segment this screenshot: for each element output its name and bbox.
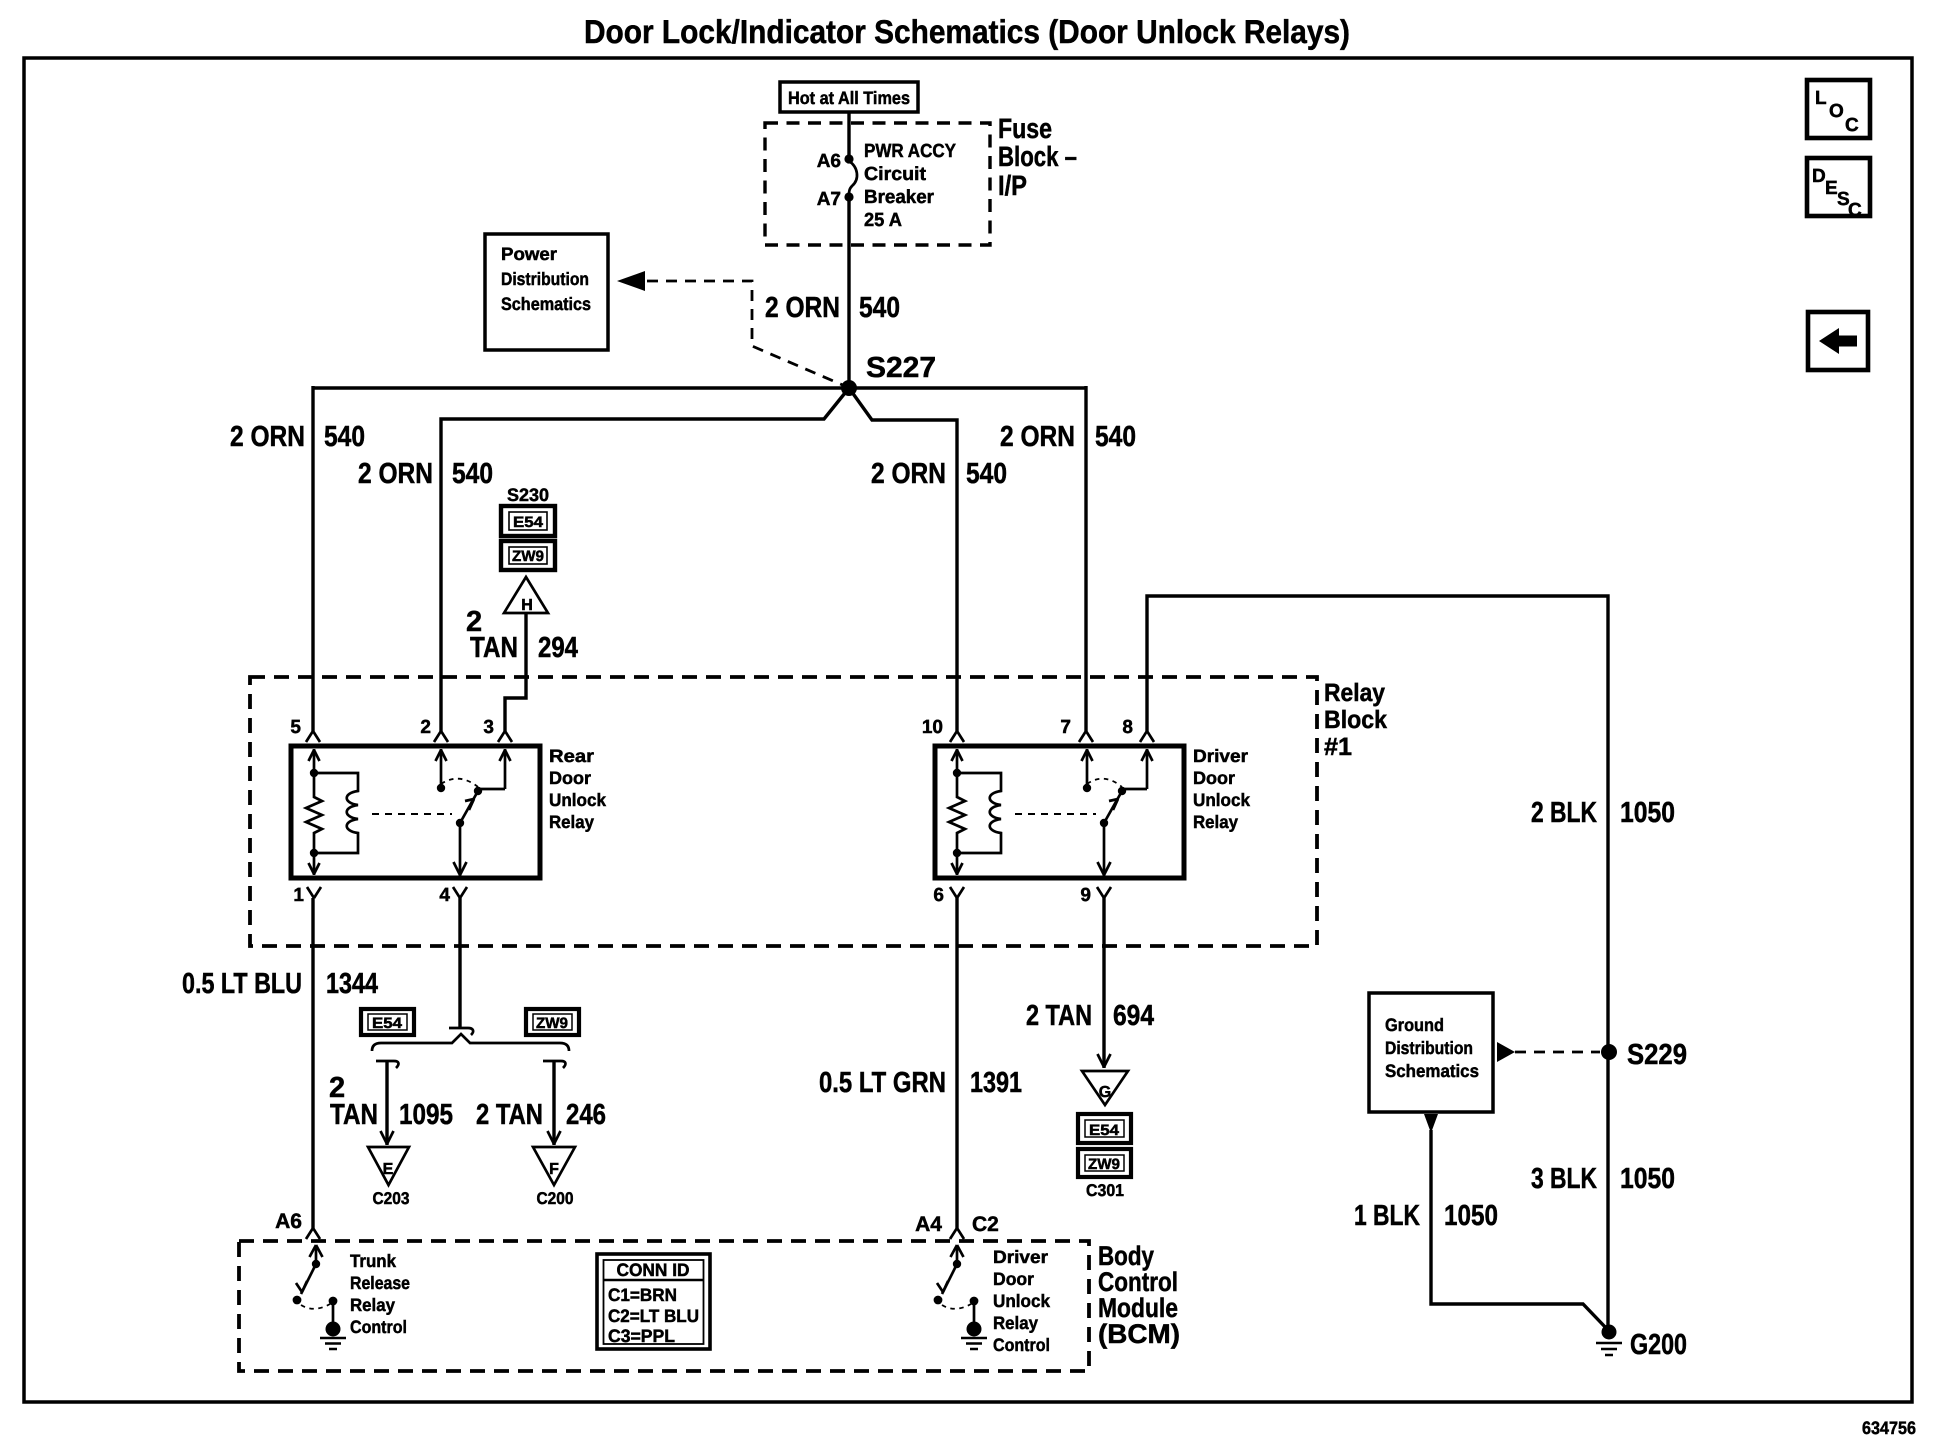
- svg-text:2 ORN: 2 ORN: [230, 421, 305, 453]
- ground G200: [1596, 1325, 1687, 1362]
- label 2 ORN 540 (pin 7): [1000, 421, 1136, 453]
- label 2 ORN 540 (pin 5): [230, 421, 365, 453]
- svg-text:Block: Block: [1324, 706, 1387, 734]
- body control module dashed box: [239, 1241, 1089, 1371]
- svg-text:2 ORN: 2 ORN: [1000, 421, 1075, 453]
- wire 2 BLK 1050 pin8 to S229: [1140, 596, 1608, 1052]
- svg-text:Hot at All Times: Hot at All Times: [788, 88, 910, 108]
- svg-text:2 TAN: 2 TAN: [476, 1099, 543, 1131]
- svg-text:ZW9: ZW9: [512, 548, 544, 565]
- trunk release relay control switch: [293, 1245, 346, 1349]
- svg-text:3 BLK: 3 BLK: [1531, 1163, 1597, 1195]
- svg-text:1050: 1050: [1444, 1200, 1498, 1232]
- svg-text:1095: 1095: [399, 1099, 453, 1131]
- svg-text:540: 540: [324, 421, 365, 453]
- svg-text:C2: C2: [972, 1213, 999, 1236]
- driver door unlock relay coil output pin: [950, 853, 964, 898]
- svg-text:E54: E54: [372, 1015, 403, 1032]
- svg-text:Relay: Relay: [350, 1295, 395, 1315]
- svg-text:C2=LT BLU: C2=LT BLU: [608, 1306, 699, 1326]
- svg-text:6: 6: [933, 885, 944, 906]
- label 0.5 LT GRN 1391: [819, 1067, 1022, 1099]
- relay block #1 dashed box: [250, 677, 1317, 946]
- svg-text:Circuit: Circuit: [864, 164, 927, 185]
- wire 2 ORN 540 fuse block to S227: [847, 197, 850, 388]
- svg-text:F: F: [549, 1161, 559, 1178]
- svg-text:Relay: Relay: [549, 812, 594, 832]
- harness box E54 (left): [361, 1009, 414, 1035]
- svg-text:9: 9: [1080, 885, 1091, 906]
- harness box E54 (right): [1078, 1114, 1131, 1143]
- svg-text:E: E: [383, 1161, 394, 1178]
- svg-text:D: D: [1812, 166, 1826, 187]
- svg-text:G: G: [1099, 1084, 1111, 1101]
- svg-text:CONN ID: CONN ID: [617, 1260, 690, 1280]
- wire 2 TAN 294 to relay pin 3: [498, 613, 526, 742]
- rear door unlock relay coil output pin: [307, 853, 321, 898]
- relay pin numbers top: [290, 717, 1133, 738]
- svg-text:Relay: Relay: [1324, 679, 1385, 707]
- svg-text:1: 1: [293, 885, 304, 906]
- svg-text:540: 540: [966, 458, 1007, 490]
- dashed arrow to power distribution schematics: [617, 271, 845, 386]
- svg-text:246: 246: [566, 1099, 606, 1131]
- label Fuse Block - I/P: [998, 113, 1077, 201]
- dashed arrow ground distribution to S229: [1497, 1042, 1600, 1062]
- svg-text:TAN: TAN: [330, 1099, 378, 1131]
- rear door unlock relay switch: [372, 749, 511, 876]
- svg-text:Breaker: Breaker: [864, 187, 935, 208]
- svg-text:S227: S227: [866, 352, 936, 384]
- wire 2 ORN 540 to relay pin 10: [849, 388, 964, 742]
- svg-text:7: 7: [1060, 717, 1071, 738]
- svg-text:540: 540: [1095, 421, 1136, 453]
- svg-text:Fuse: Fuse: [998, 113, 1052, 144]
- svg-text:#1: #1: [1324, 733, 1352, 761]
- svg-text:540: 540: [452, 458, 493, 490]
- svg-text:Driver: Driver: [1193, 746, 1248, 766]
- label 3 BLK 1050: [1531, 1163, 1675, 1195]
- wire 0.5 LT BLU 1344 pin1 to BCM A6: [306, 898, 320, 1239]
- driver door unlock relay switch output connector: [1097, 887, 1111, 898]
- terminal A7: [817, 189, 854, 210]
- svg-text:1391: 1391: [970, 1067, 1022, 1099]
- wire into fuse block: [847, 112, 850, 160]
- svg-text:10: 10: [922, 717, 943, 738]
- label Driver Door Unlock Relay Control: [993, 1247, 1051, 1355]
- svg-text:G200: G200: [1630, 1329, 1687, 1361]
- svg-text:2 ORN: 2 ORN: [765, 292, 840, 324]
- wire 2 TAN 246 to connector F: [543, 1061, 565, 1145]
- svg-text:C200: C200: [537, 1189, 574, 1208]
- svg-text:2 TAN: 2 TAN: [1026, 1000, 1092, 1032]
- LOC box: [1807, 80, 1870, 138]
- harness box ZW9 (right): [1078, 1149, 1131, 1177]
- svg-text:Schematics: Schematics: [1385, 1061, 1479, 1081]
- label 2 ORN 540 (pin 2): [358, 458, 493, 490]
- label 2 TAN 246: [476, 1099, 606, 1131]
- svg-text:Trunk: Trunk: [350, 1251, 397, 1271]
- svg-text:1050: 1050: [1620, 1163, 1675, 1195]
- svg-text:H: H: [521, 597, 533, 614]
- wire 2 TAN 1095 to connector E: [376, 1061, 398, 1145]
- back arrow box: [1808, 312, 1868, 370]
- rear door unlock relay box: [291, 746, 540, 878]
- power distribution schematics box: [485, 234, 608, 350]
- svg-text:3: 3: [483, 717, 494, 738]
- connector triangle E / C203: [368, 1147, 410, 1208]
- svg-text:2: 2: [420, 717, 431, 738]
- svg-text:C301: C301: [1086, 1181, 1124, 1200]
- harness box E54: [501, 506, 555, 536]
- DESC box: [1807, 158, 1870, 221]
- driver door unlock relay coil: [949, 749, 1001, 857]
- svg-text:694: 694: [1113, 1000, 1154, 1032]
- splice brace: [372, 1034, 569, 1051]
- connector triangle F / C200: [533, 1147, 575, 1208]
- svg-text:S230: S230: [507, 485, 549, 505]
- label 0.5 LT BLU 1344: [182, 968, 378, 1000]
- label 2 ORN 540 (pin 10): [871, 458, 1007, 490]
- svg-text:ZW9: ZW9: [1088, 1156, 1120, 1173]
- driver door unlock relay control switch: [934, 1245, 987, 1349]
- rear door unlock relay coil: [306, 749, 358, 857]
- svg-text:Driver: Driver: [993, 1247, 1048, 1267]
- svg-text:1 BLK: 1 BLK: [1354, 1200, 1420, 1232]
- svg-text:A6: A6: [275, 1210, 302, 1233]
- svg-text:Door: Door: [549, 768, 591, 788]
- label Body Control Module (BCM): [1098, 1241, 1180, 1349]
- svg-text:25 A: 25 A: [864, 210, 902, 231]
- splice S227: [841, 352, 936, 396]
- connector triangle G: [1082, 1071, 1128, 1105]
- svg-text:0.5 LT GRN: 0.5 LT GRN: [819, 1067, 946, 1099]
- svg-text:C1=BRN: C1=BRN: [608, 1285, 677, 1305]
- svg-text:0.5 LT BLU: 0.5 LT BLU: [182, 968, 302, 1000]
- label Relay Block #1: [1324, 679, 1387, 761]
- svg-text:540: 540: [859, 292, 900, 324]
- relay pin numbers bottom: [293, 885, 1091, 906]
- label A6 (BCM pin): [275, 1210, 302, 1233]
- wire 3 BLK 1050 S229 to G200: [1606, 1052, 1609, 1332]
- svg-text:4: 4: [439, 885, 450, 906]
- svg-text:E54: E54: [513, 514, 544, 531]
- svg-text:Schematics: Schematics: [501, 294, 591, 314]
- label 2 TAN 694: [1026, 1000, 1154, 1032]
- svg-text:E54: E54: [1089, 1122, 1120, 1139]
- svg-text:C3=PPL: C3=PPL: [608, 1326, 675, 1346]
- svg-text:2 BLK: 2 BLK: [1531, 797, 1597, 829]
- svg-text:294: 294: [538, 632, 578, 664]
- svg-text:C: C: [1848, 200, 1862, 221]
- svg-text:A7: A7: [817, 189, 841, 210]
- svg-text:TAN: TAN: [470, 632, 518, 664]
- terminal A6: [817, 151, 854, 172]
- svg-text:ZW9: ZW9: [536, 1015, 568, 1032]
- svg-text:Unlock: Unlock: [993, 1291, 1051, 1311]
- svg-text:Door: Door: [993, 1269, 1034, 1289]
- label 2 TAN 1095: [329, 1072, 453, 1131]
- harness box ZW9 (left): [526, 1009, 579, 1035]
- rear door unlock relay switch output connector: [453, 887, 467, 898]
- label C301: [1086, 1181, 1124, 1200]
- label 1 BLK 1050: [1354, 1200, 1498, 1232]
- svg-text:1050: 1050: [1620, 797, 1675, 829]
- svg-text:Rear: Rear: [549, 746, 594, 766]
- svg-text:A6: A6: [817, 151, 841, 172]
- label Hot at All Times: [780, 82, 918, 112]
- svg-text:Relay: Relay: [1193, 812, 1238, 832]
- svg-text:I/P: I/P: [998, 170, 1027, 201]
- svg-text:Power: Power: [501, 244, 557, 264]
- svg-text:Release: Release: [350, 1273, 410, 1293]
- svg-text:(BCM): (BCM): [1098, 1319, 1180, 1349]
- wire 2 ORN 540 to relay pin 7: [1079, 386, 1093, 742]
- driver door unlock relay switch: [1015, 749, 1153, 876]
- svg-text:L: L: [1815, 88, 1827, 109]
- circuit breaker PWR ACCY 25 A: [849, 141, 956, 231]
- svg-text:8: 8: [1122, 717, 1133, 738]
- svg-text:2 ORN: 2 ORN: [358, 458, 433, 490]
- bus wire from S227: [313, 386, 1086, 389]
- wire 2 ORN 540 to relay pin 5: [306, 386, 320, 742]
- svg-text:Ground: Ground: [1385, 1015, 1444, 1035]
- svg-text:Distribution: Distribution: [1385, 1038, 1473, 1058]
- splice S229: [1601, 1039, 1687, 1071]
- connector triangle H: [504, 577, 548, 614]
- CONN ID table: [597, 1254, 710, 1349]
- fuse block I/P dashed box: [765, 123, 990, 245]
- svg-text:C: C: [1845, 115, 1859, 136]
- wire 0.5 LT GRN 1391 pin6 to BCM A4: [950, 898, 964, 1239]
- svg-text:A4: A4: [915, 1213, 942, 1236]
- wire pin 4 to splice brace: [449, 898, 473, 1035]
- svg-text:1344: 1344: [326, 968, 378, 1000]
- svg-text:Unlock: Unlock: [1193, 790, 1251, 810]
- svg-text:Door: Door: [1193, 768, 1235, 788]
- labels A4 C2: [915, 1213, 999, 1236]
- harness box ZW9: [501, 541, 555, 570]
- svg-text:5: 5: [290, 717, 301, 738]
- label 2 ORN 540: [765, 292, 900, 324]
- svg-text:Block –: Block –: [998, 141, 1077, 172]
- label driver door unlock relay name: [1193, 746, 1251, 832]
- svg-text:S229: S229: [1627, 1039, 1687, 1071]
- wire 2 TAN 694 pin9 to connector G: [1098, 898, 1111, 1068]
- svg-text:634756: 634756: [1862, 1418, 1916, 1438]
- label rear door unlock relay name: [549, 746, 607, 832]
- svg-text:Control: Control: [350, 1317, 407, 1337]
- wire 2 ORN 540 to relay pin 2: [434, 388, 849, 742]
- svg-text:O: O: [1829, 101, 1844, 122]
- svg-text:E: E: [1825, 178, 1838, 199]
- svg-text:C203: C203: [373, 1189, 410, 1208]
- svg-text:Relay: Relay: [993, 1313, 1038, 1333]
- ground distribution schematics box: [1369, 993, 1493, 1112]
- svg-text:Unlock: Unlock: [549, 790, 607, 810]
- svg-text:Door Lock/Indicator Schematics: Door Lock/Indicator Schematics (Door Unl…: [584, 13, 1350, 50]
- label 2 TAN 294: [466, 606, 578, 664]
- title: [584, 13, 1350, 50]
- svg-text:2 ORN: 2 ORN: [871, 458, 946, 490]
- sheet number 634756: [1862, 1418, 1916, 1438]
- label 2 BLK 1050: [1531, 797, 1675, 829]
- splice label S230: [507, 485, 549, 505]
- label Trunk Release Relay Control: [350, 1251, 410, 1337]
- driver door unlock relay box: [935, 746, 1184, 878]
- svg-text:PWR ACCY: PWR ACCY: [864, 141, 956, 162]
- svg-text:Distribution: Distribution: [501, 269, 589, 289]
- svg-text:Control: Control: [993, 1335, 1050, 1355]
- wire 1 BLK 1050 to ground G200: [1424, 1114, 1608, 1330]
